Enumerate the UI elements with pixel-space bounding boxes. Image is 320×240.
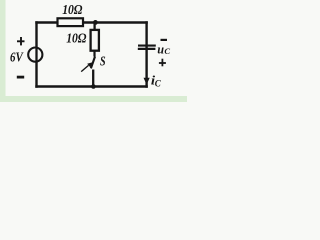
- svg-text:C: C: [155, 78, 162, 88]
- svg-text:6V: 6V: [10, 50, 24, 65]
- svg-text:10Ω: 10Ω: [62, 3, 83, 18]
- wire stub to R2: [93, 22, 95, 29]
- voltage source U: [28, 48, 42, 62]
- page background: [0, 0, 187, 102]
- node junction dot bottom: [91, 84, 96, 89]
- capacitor plus sign: [159, 59, 166, 67]
- wire bottom: [37, 85, 147, 87]
- svg-text:C: C: [164, 46, 170, 56]
- wire top: [37, 21, 147, 23]
- switch S: [81, 51, 95, 87]
- current iC arrow head: [144, 78, 150, 85]
- wire right: [145, 23, 147, 87]
- svg-text:u: u: [157, 43, 164, 57]
- capacitor C plates: [138, 46, 156, 49]
- resistor R2 (vertical, 10ohm): [91, 30, 99, 51]
- switch top stub: [93, 51, 95, 57]
- switch actuate arrow: [81, 65, 88, 71]
- source minus sign: [17, 76, 24, 79]
- source plus sign: [17, 37, 25, 45]
- wire through source: [35, 47, 37, 63]
- switch bottom stub: [92, 70, 94, 87]
- node junction dot top: [93, 20, 98, 25]
- svg-text:10Ω: 10Ω: [66, 32, 87, 47]
- switch arrow head: [87, 62, 92, 67]
- svg-text:S: S: [100, 54, 106, 69]
- switch blade: [91, 57, 95, 69]
- capacitor minus sign: [161, 39, 168, 41]
- resistor R1 (top, 10ohm): [58, 18, 84, 26]
- wire left: [35, 23, 37, 87]
